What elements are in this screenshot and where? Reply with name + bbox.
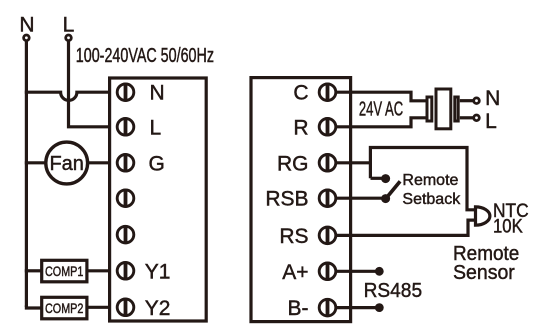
svg-text:24V AC: 24V AC [359,99,403,121]
wire RSB to switch lower contact [336,197,383,200]
svg-text:N: N [150,82,165,105]
svg-text:RS485: RS485 [364,280,423,302]
svg-text:Remote: Remote [402,172,458,189]
svg-text:B-: B- [288,297,309,320]
svg-text:L: L [485,110,497,133]
svg-text:100-240VAC 50/60Hz: 100-240VAC 50/60Hz [76,45,214,67]
svg-text:Y2: Y2 [145,297,171,320]
terminal RG screw [319,153,336,172]
svg-text:Setback: Setback [402,191,461,208]
wire L vertical [69,41,117,127]
terminal L input circle [66,35,72,41]
svg-text:A+: A+ [282,261,308,284]
svg-text:RSB: RSB [265,188,308,211]
wire remote setback loop [370,148,474,210]
wire to switch upper contact [371,177,383,180]
wire C to transformer [336,92,428,101]
terminal Y2 screw [117,298,134,317]
thermostat low-voltage terminal block box [251,78,351,322]
terminal L output circle [474,115,480,121]
wire B- [336,306,380,309]
switch S1 lever [388,181,400,196]
switch S1 upper contact node [381,174,390,183]
wire N vertical bus [25,41,28,307]
node B- end dot [375,303,384,312]
wire to COMP1 [25,269,41,272]
terminal R screw [319,117,336,136]
terminal L screw [117,117,134,136]
svg-text:C: C [293,82,308,105]
svg-text:Y1: Y1 [145,260,171,283]
terminal Y1 screw [117,261,134,280]
terminal RSB screw [319,189,336,208]
fan motor M1 [46,142,88,184]
svg-text:G: G [149,152,165,175]
terminal blank 1 screw [117,189,134,208]
wire transformer to N [460,99,474,102]
svg-text:L: L [150,116,162,139]
wire to COMP2 [26,305,40,308]
terminal N output circle [474,98,480,104]
wire COMP1 to terminal Y1 [87,269,117,272]
wire RG to setback loop [336,161,371,164]
svg-text:RG: RG [277,152,309,175]
compressor COMP1 [42,260,87,282]
switch S1 lower contact node [381,194,390,203]
terminal B- screw [319,298,336,317]
wire R to transformer [336,118,428,127]
svg-text:RS: RS [279,225,308,248]
transformer T1 right plate [455,97,458,121]
wire transformer to L [460,116,474,119]
node A+ end dot [375,267,384,276]
svg-text:COMP1: COMP1 [45,263,84,279]
terminal blank 2 screw [117,225,134,244]
terminal G screw [117,153,134,172]
terminal C screw [319,83,336,102]
wire A+ [336,270,380,273]
wire fan branch [25,161,46,164]
svg-text:Fan: Fan [49,153,83,175]
compressor COMP2 [42,297,87,319]
transformer T1 core [436,89,451,129]
wire COMP2 to terminal Y2 [87,306,117,309]
svg-text:L: L [63,13,75,36]
terminal A+ screw [319,262,336,281]
wire RS to sensor [336,220,475,235]
svg-text:R: R [293,116,308,139]
svg-text:COMP2: COMP2 [45,300,84,316]
svg-text:Sensor: Sensor [453,262,515,284]
thermistor NTC probe [476,207,490,225]
wire N to terminal N with hop over L [25,92,117,100]
svg-text:N: N [19,13,34,36]
svg-text:10K: 10K [493,216,523,237]
wire fan to terminal G [87,161,116,164]
thermostat line-voltage terminal block box [110,78,207,321]
terminal N screw [117,83,134,102]
terminal RS screw [319,226,336,245]
transformer T1 left plate [427,97,432,121]
terminal N input circle [24,35,30,41]
svg-text:N: N [485,87,500,110]
